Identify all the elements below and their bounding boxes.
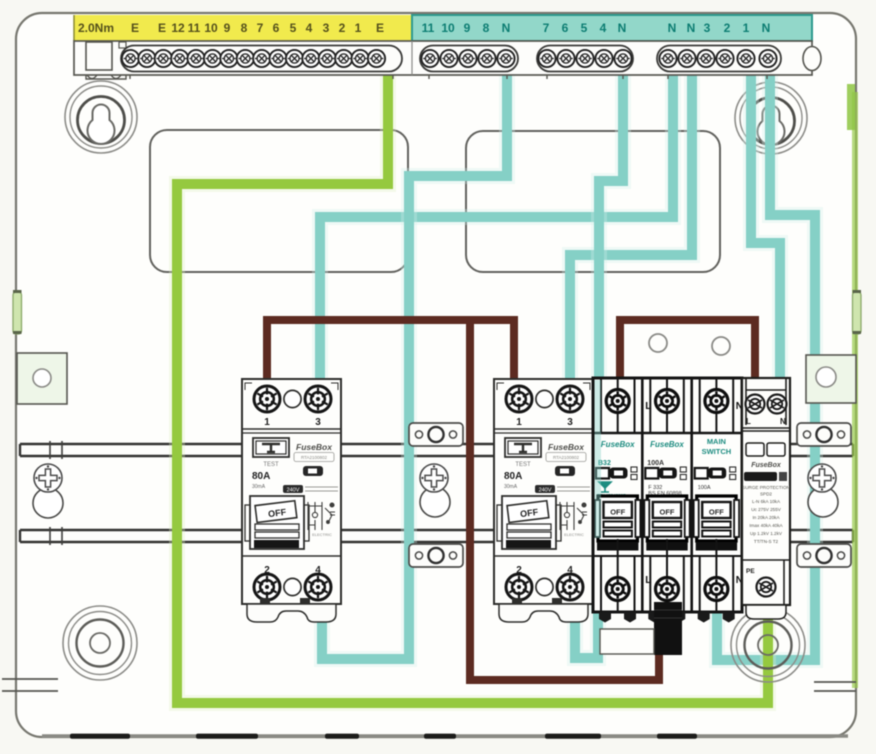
wire earth main : busbar E terminal to SPD PE via left and bottom run xyxy=(177,73,768,703)
svg-text:2.0Nm: 2.0Nm xyxy=(78,21,114,35)
svg-text:8: 8 xyxy=(241,21,248,35)
MCB Q3 MAIN SWITCH mounting feet xyxy=(698,612,735,623)
knockout circle B xyxy=(712,337,730,355)
RCD R2 (80A right) top centre port xyxy=(536,390,553,407)
RCD R2 (80A right) terminal screw 1 xyxy=(506,386,532,412)
SPD indicator windows xyxy=(746,443,785,456)
wire neutral A : busbar N(672) to RCD1 terminal 3 xyxy=(320,73,673,374)
svg-text:1: 1 xyxy=(264,417,270,428)
svg-text:30mA: 30mA xyxy=(504,484,518,490)
svg-text:11: 11 xyxy=(188,21,201,35)
svg-text:Uc 275V 255V: Uc 275V 255V xyxy=(751,507,782,512)
svg-text:SWITCH: SWITCH xyxy=(702,447,732,456)
MCB Q1 B32 RCBO mounting feet xyxy=(599,612,636,623)
svg-text:ELECTRIC: ELECTRIC xyxy=(312,532,332,537)
svg-text:10: 10 xyxy=(441,21,455,35)
RCD R2 (80A right) test button xyxy=(505,438,541,468)
RCD R1 (80A left) terminal screw 4 xyxy=(305,574,331,600)
svg-text:3: 3 xyxy=(567,417,573,428)
RCD R1 (80A left) wiring schematic print xyxy=(308,502,335,530)
MCB Q3 MAIN SWITCH extra print xyxy=(698,485,711,491)
wire neutral G : RCD2 terminal 4 loop to RCBO bottom xyxy=(575,604,598,658)
hinge stub right border xyxy=(853,290,862,334)
svg-text:30mA: 30mA xyxy=(252,484,266,490)
svg-text:E: E xyxy=(158,21,166,35)
RCD R2 (80A right) bottom centre port xyxy=(536,578,553,595)
RCD R1 (80A left) bottom centre port xyxy=(284,578,301,595)
MCB Q2 100A OFF toggle xyxy=(644,496,689,551)
svg-text:TEST: TEST xyxy=(515,462,531,468)
earth busbar screws xyxy=(121,46,402,72)
svg-text:SPD2: SPD2 xyxy=(760,492,772,497)
RCD R1 (80A left) terminal screw 2 xyxy=(254,574,280,600)
svg-text:4: 4 xyxy=(600,21,607,35)
knockout circle A xyxy=(649,334,667,352)
rail bracket centre xyxy=(409,423,463,567)
terminal strip feet xyxy=(86,75,767,79)
MCB Q1 B32 RCBO top screw xyxy=(606,390,629,413)
MCB Q1 B32 RCBO indicator windows xyxy=(596,467,637,480)
MCB Q3 MAIN SWITCH label divider xyxy=(692,432,741,434)
MCB Q3 MAIN SWITCH brand text xyxy=(702,437,732,456)
svg-text:OFF: OFF xyxy=(709,508,724,517)
SPD N terminal screw xyxy=(768,395,787,414)
SPD U1 body xyxy=(742,378,790,605)
mounting keyhole top-right xyxy=(735,82,807,154)
knockout rect left xyxy=(150,130,408,272)
svg-text:9: 9 xyxy=(464,21,471,35)
svg-text:80A: 80A xyxy=(252,471,270,482)
RCD R2 (80A right) brand text xyxy=(546,442,586,462)
DIN rail clip marks left xyxy=(50,441,62,545)
svg-text:3: 3 xyxy=(704,21,711,35)
RCD R1 (80A left) status window xyxy=(303,466,323,476)
svg-text:L: L xyxy=(645,575,651,586)
SPD skirt xyxy=(746,605,786,619)
svg-text:FuseBox: FuseBox xyxy=(601,440,635,449)
svg-text:SURGE PROTECTION: SURGE PROTECTION xyxy=(742,485,790,490)
RCD R1 (80A left) rating 80A xyxy=(252,471,270,490)
RCD R1 (80A left) brand text xyxy=(294,442,334,462)
rail screw left end xyxy=(33,464,63,518)
svg-text:FuseBox: FuseBox xyxy=(650,440,684,449)
svg-text:Imax 40kA 40kA: Imax 40kA 40kA xyxy=(749,523,783,528)
SPD L terminal screw xyxy=(746,395,765,414)
MCB Q1 B32 RCBO extra print xyxy=(599,482,611,492)
svg-text:9: 9 xyxy=(224,21,231,35)
wire earth tint right edge xyxy=(852,92,858,688)
MCB Q3 MAIN SWITCH bottom cage xyxy=(692,539,741,612)
SPD PE terminal cage xyxy=(742,560,790,605)
RCD R2 (80A right) status window xyxy=(555,466,575,476)
MCB Q1 B32 RCBO bottom cage xyxy=(593,539,642,612)
svg-text:7: 7 xyxy=(257,21,264,35)
svg-text:MAIN: MAIN xyxy=(707,437,726,446)
neutral bar 2 screws xyxy=(537,46,633,72)
neutral bars label band (teal) xyxy=(412,15,812,41)
neutral bar 1 screws xyxy=(420,46,518,72)
svg-text:N: N xyxy=(780,417,786,426)
MCB Q3 MAIN SWITCH top terminal cage xyxy=(700,378,734,433)
mounting hole bottom-left xyxy=(63,606,137,680)
MCB Q3 MAIN SWITCH OFF toggle xyxy=(694,496,739,551)
wire live B : RCBO B32 top loop to SPD L terminal xyxy=(620,320,755,382)
svg-text:N: N xyxy=(502,21,511,35)
label plate under RCBOs xyxy=(600,629,654,654)
svg-text:RTA2100802: RTA2100802 xyxy=(301,455,328,460)
RCD R2 (80A right) body xyxy=(494,379,593,604)
wire neutral B : busbar N(692) to RCD2 terminal 3 xyxy=(570,73,692,374)
svg-text:6: 6 xyxy=(273,21,280,35)
wire neutral E : busbar N(770) right loop to main-switch N bottom xyxy=(717,73,815,660)
svg-text:RTA2100802: RTA2100802 xyxy=(553,455,580,460)
RCD R1 (80A left) terminal screw 1 xyxy=(254,386,280,412)
MCB Q3 MAIN SWITCH indicator windows xyxy=(695,467,736,480)
wire neutral F : busbar N(507) down-left loop to RCD1 terminal 4 xyxy=(322,71,507,659)
left edge marks xyxy=(2,679,58,691)
mounting hole bottom-right xyxy=(731,608,805,682)
MCB Q1 B32 RCBO brand text xyxy=(601,440,635,449)
svg-text:N: N xyxy=(762,21,771,35)
MCB Q1 B32 RCBO OFF toggle xyxy=(595,496,640,551)
svg-text:100A: 100A xyxy=(698,485,711,491)
neutral bar 3 screws xyxy=(657,46,781,72)
svg-text:3: 3 xyxy=(323,21,330,35)
RCD R2 (80A right) rating 80A xyxy=(504,471,522,490)
RCD R2 (80A right) mounting skirt xyxy=(499,598,588,622)
wire neutral D : busbar(751) to SPD N terminal xyxy=(751,73,780,382)
MCB Q3 MAIN SWITCH bottom screw xyxy=(705,578,728,601)
MCB Q2 100A top screw xyxy=(656,390,679,413)
empty screw slot right xyxy=(803,47,821,71)
svg-text:TEST: TEST xyxy=(263,462,279,468)
svg-text:240V: 240V xyxy=(287,488,300,494)
RCD R2 (80A right) wiring schematic print xyxy=(560,502,587,530)
svg-text:11: 11 xyxy=(422,21,435,35)
MCB Q2 100A bottom screw xyxy=(656,578,679,601)
svg-text:FuseBox: FuseBox xyxy=(296,442,333,452)
MCB Q2 100A top terminal cage xyxy=(650,378,684,433)
rail bracket right xyxy=(797,423,851,567)
RCD R1 (80A left) terminal labels 1 3 xyxy=(264,417,321,428)
svg-text:2: 2 xyxy=(724,21,731,35)
hinge stub left border xyxy=(13,290,22,334)
svg-text:10: 10 xyxy=(204,21,218,35)
svg-text:5: 5 xyxy=(581,21,588,35)
svg-text:E: E xyxy=(376,21,384,35)
svg-text:4: 4 xyxy=(306,21,313,35)
svg-text:E: E xyxy=(131,21,139,35)
svg-text:12: 12 xyxy=(171,21,185,35)
RCD R1 (80A left) OFF toggle xyxy=(245,496,309,549)
RCD R2 (80A right) terminal labels 1 3 xyxy=(516,417,573,428)
svg-text:ELECTRIC: ELECTRIC xyxy=(564,532,584,537)
MCB Q1 B32 RCBO top terminal cage xyxy=(601,378,635,433)
RCD R2 (80A right) ratings row xyxy=(535,485,590,494)
svg-text:PE: PE xyxy=(746,568,755,575)
RCD R1 (80A left) bottom divider xyxy=(242,555,341,557)
MCB Q2 100A extra print xyxy=(648,485,681,497)
knockout rect right xyxy=(466,131,720,272)
wire neutral C : busbar N(623) to RCBO B32 top xyxy=(599,73,623,374)
svg-text:1: 1 xyxy=(743,21,750,35)
svg-text:3: 3 xyxy=(315,417,321,428)
RCD R1 (80A left) ratings row xyxy=(283,485,338,494)
svg-text:N: N xyxy=(687,21,696,35)
wire live A2 : branch down left of RCD2 to bottom loop into 100A switch xyxy=(470,320,659,680)
MCB cluster outline xyxy=(593,378,742,612)
supply cable black xyxy=(654,602,682,655)
RCD R1 (80A left) test button xyxy=(253,438,289,468)
svg-text:L: L xyxy=(645,401,651,412)
RCD R2 (80A right) bottom divider xyxy=(494,555,593,557)
RCD R1 (80A left) mounting skirt xyxy=(247,598,336,622)
svg-text:TT/TN-S T2: TT/TN-S T2 xyxy=(754,539,779,544)
mounting keyhole top-left xyxy=(65,81,137,153)
wire live A : RCD1 terminal 1 up-over to RCD2 terminal 1 and down past xyxy=(267,320,514,378)
SPD terminal letters xyxy=(746,417,786,426)
svg-text:1: 1 xyxy=(516,417,522,428)
SPD spec text xyxy=(742,485,790,544)
SPD dark label xyxy=(744,472,787,481)
neutral bar labels xyxy=(422,21,771,35)
svg-text:FuseBox: FuseBox xyxy=(548,442,585,452)
svg-text:240V: 240V xyxy=(539,488,552,494)
svg-text:5: 5 xyxy=(290,21,297,35)
MCB Q2 100A brand text xyxy=(650,440,684,449)
MCB Q1 B32 RCBO bottom screw xyxy=(606,578,629,601)
svg-text:Up 1.2kV 1.2kV: Up 1.2kV 1.2kV xyxy=(750,531,783,536)
MCB Q3 MAIN SWITCH top screw xyxy=(705,390,728,413)
bottom clip slots xyxy=(70,734,697,739)
bottom edge strip xyxy=(42,734,848,737)
earth bar labels xyxy=(78,21,384,35)
svg-text:N: N xyxy=(668,21,677,35)
RCD R2 (80A right) terminal screw 3 xyxy=(557,386,583,412)
svg-text:OFF: OFF xyxy=(610,508,625,517)
svg-text:L: L xyxy=(746,417,751,426)
RCD R1 (80A left) terminal labels 2 4 xyxy=(264,565,321,576)
earth bar label band (yellow) xyxy=(74,15,412,41)
side tab right xyxy=(806,355,856,403)
svg-text:FuseBox: FuseBox xyxy=(751,462,782,469)
RCD R2 (80A right) terminal labels 2 4 xyxy=(516,565,573,576)
MCB Q1 B32 RCBO label divider xyxy=(593,432,642,434)
svg-text:OFF: OFF xyxy=(660,508,675,517)
SPD top terminal cage xyxy=(742,378,790,431)
svg-text:7: 7 xyxy=(543,21,550,35)
svg-text:N: N xyxy=(618,21,627,35)
RCD R2 (80A right) terminal screw 4 xyxy=(557,574,583,600)
wire neutral C ghost behind RCBO xyxy=(595,380,602,538)
RCD R1 (80A left) top centre port xyxy=(284,390,301,407)
MCB Q2 100A mounting feet xyxy=(648,612,685,623)
side tab left xyxy=(17,353,67,404)
blank terminal slot left xyxy=(86,42,112,70)
MCB Q2 100A bottom cage xyxy=(642,539,691,612)
MCB Q2 100A label divider xyxy=(642,432,691,434)
SPD PE screw xyxy=(757,578,776,597)
svg-text:2: 2 xyxy=(339,21,346,35)
MCB Q2 100A indicator windows xyxy=(645,467,686,480)
RCD R2 (80A right) OFF toggle xyxy=(497,496,561,549)
RCD R2 (80A right) terminal screw 2 xyxy=(506,574,532,600)
RCD R1 (80A left) body xyxy=(242,379,341,604)
terminal strip body xyxy=(74,41,812,75)
RCD R1 (80A left) terminal screw 3 xyxy=(305,386,331,412)
svg-text:1: 1 xyxy=(355,21,362,35)
right edge marks xyxy=(814,682,856,691)
svg-text:L-N 6kA 10kA: L-N 6kA 10kA xyxy=(752,499,781,504)
svg-text:80A: 80A xyxy=(504,471,522,482)
svg-text:6: 6 xyxy=(562,21,569,35)
svg-text:In 20kA 20kA: In 20kA 20kA xyxy=(752,515,780,520)
svg-text:8: 8 xyxy=(483,21,490,35)
svg-text:100A: 100A xyxy=(647,460,664,467)
DIN rail xyxy=(20,444,853,542)
